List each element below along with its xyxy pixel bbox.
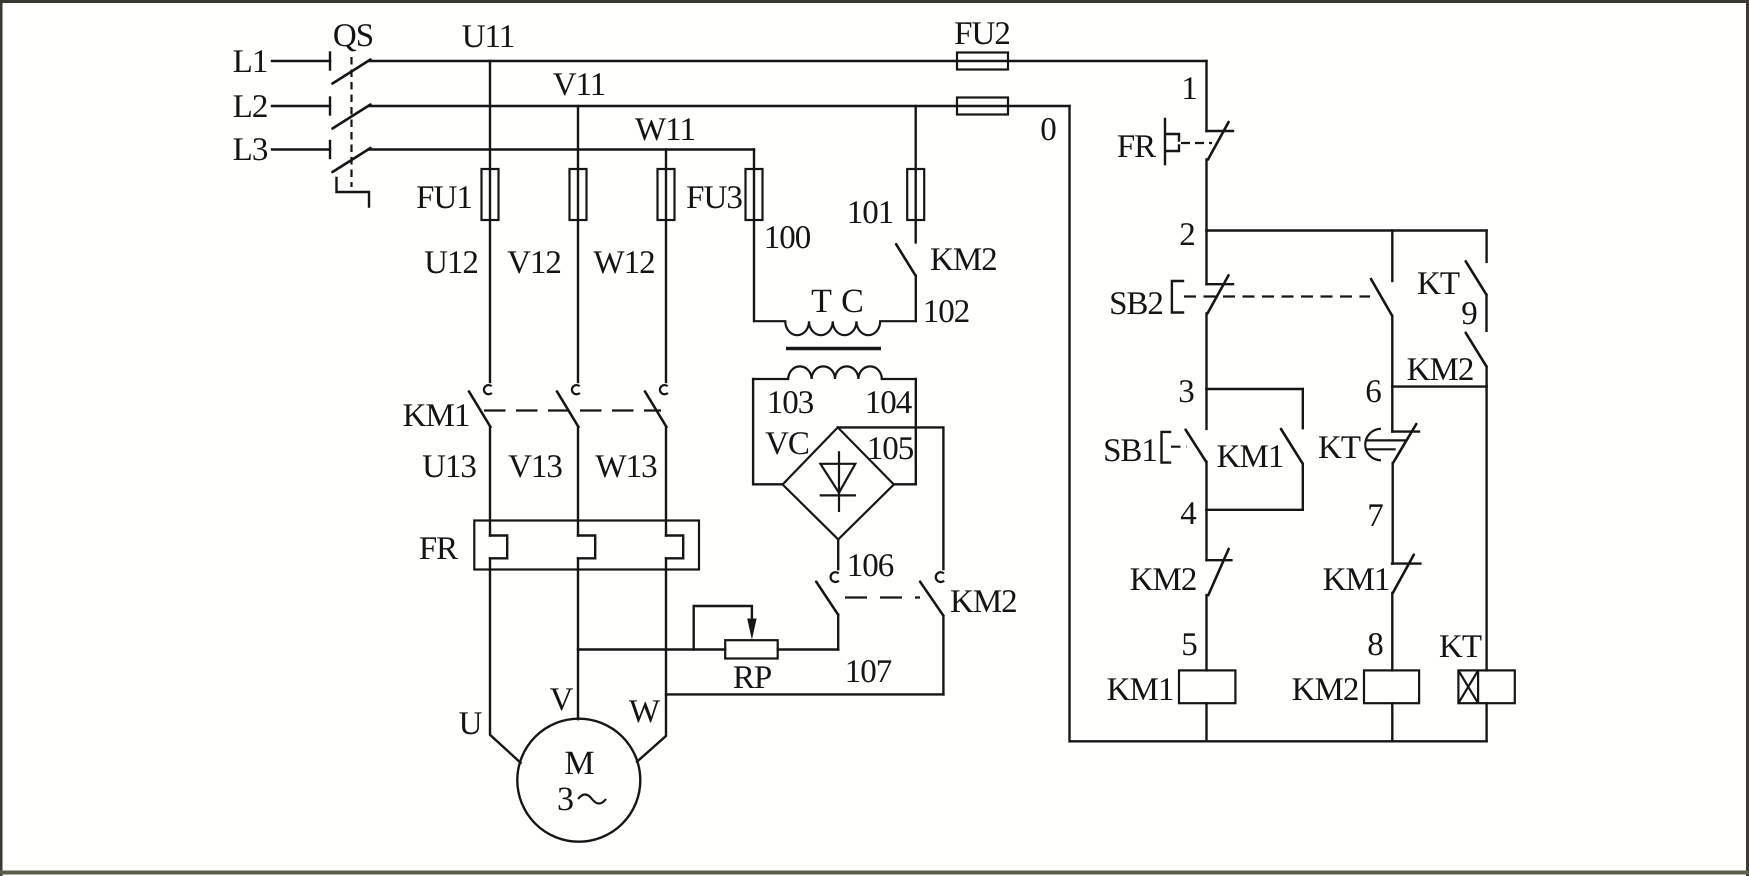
- wire V-phase: V11 bus down through FU1 to KM1 contact: [577, 106, 579, 382]
- wire TC secondary left lead down to VC: [753, 379, 783, 484]
- wire L3 lead: [272, 148, 330, 150]
- wire W-phase: W11 bus down through FU1 to KM1 contact: [665, 150, 667, 383]
- switch QS pole L1: fixed contact: [329, 53, 331, 70]
- svg-text:W13: W13: [595, 449, 657, 485]
- fuse FU2 (line 1): [957, 53, 1008, 70]
- stop button SB2: button cap: [1172, 281, 1183, 313]
- contactor KM2 interlock: blade (NC): [1208, 549, 1228, 595]
- wire KM1 latch contact to node 4: [1302, 464, 1304, 510]
- wire node 4 run: [1207, 509, 1303, 511]
- thermal relay FR heater element (x=490): [490, 536, 507, 559]
- switch QS pole L3: fixed contact: [329, 141, 331, 158]
- contactor KM1 latch contact: blade (NO): [1281, 429, 1303, 464]
- svg-text:0: 0: [1040, 112, 1056, 148]
- svg-text:5: 5: [1181, 627, 1197, 663]
- svg-text:KM2: KM2: [1130, 562, 1197, 598]
- svg-text:U: U: [459, 706, 483, 742]
- thermal relay FR contact: blade (NC): [1208, 122, 1229, 160]
- stop button SB2 mechanical link (dashed): [1184, 295, 1370, 297]
- svg-text:101: 101: [847, 195, 894, 231]
- svg-text:KM1: KM1: [1217, 439, 1284, 475]
- svg-text:2: 2: [1179, 217, 1195, 253]
- fuse FU2 (branch 101): [907, 169, 924, 220]
- wire node2 corner down to KT contact: [1485, 231, 1487, 262]
- fuse FU1 (W phase): [658, 169, 675, 220]
- time relay KT coil X mark: [1458, 670, 1478, 703]
- wire KM2 right contact down to rail 107: [942, 616, 944, 695]
- svg-text:U12: U12: [424, 245, 478, 281]
- wire TC secondary right lead down to VC: [894, 379, 916, 484]
- wire VC plus output (node 105) to KM2 contact: [838, 427, 944, 569]
- wire line W11 (lower bus): [369, 148, 754, 150]
- contactor KM2 braking contacts mechanical link (dashed): [845, 596, 920, 598]
- wire node3 branch down to KM1 latch contact: [1302, 389, 1304, 428]
- wire KM1 interlock to KM2 coil: [1391, 593, 1393, 670]
- contactor KM2 braking contact (left): blade: [816, 582, 838, 615]
- wire SB1 to node 4: [1205, 462, 1207, 510]
- svg-text:KM2: KM2: [1292, 672, 1359, 708]
- start button SB1: blade (NO): [1186, 430, 1206, 462]
- svg-text:T: T: [811, 283, 832, 320]
- wire U: FR to motor: [490, 558, 521, 763]
- svg-text:L1: L1: [233, 44, 268, 80]
- wire 0 rail: corner down and bottom run: [1070, 106, 1487, 741]
- svg-text:FU2: FU2: [954, 16, 1010, 52]
- wire node3 to SB1 contact: [1205, 389, 1207, 429]
- contactor KM2 braking contact (left): fixed hook: [831, 572, 839, 582]
- svg-text:KT: KT: [1318, 430, 1361, 466]
- switch QS pole L3: blade: [333, 148, 371, 172]
- wire W11 bus corner down to FU3: [753, 150, 755, 322]
- rectifier VC diode: anode line: [838, 451, 840, 512]
- wire L1 lead: [272, 60, 330, 62]
- wire node6 to KT delayed contact: [1391, 387, 1393, 432]
- svg-text:U11: U11: [462, 19, 515, 55]
- time relay KT instantaneous contact: blade (NO): [1466, 261, 1487, 295]
- fuse FU1 (U phase): [482, 169, 499, 220]
- switch QS pole L1: blade: [333, 60, 371, 84]
- svg-text:8: 8: [1367, 627, 1383, 663]
- svg-text:107: 107: [845, 654, 892, 690]
- switch QS handle bracket: [337, 178, 370, 207]
- stop button SB2: blade (NO, braking branch): [1371, 279, 1392, 316]
- border frame: [0, 0, 1749, 3]
- contactor KM1 coil: [1179, 670, 1235, 703]
- svg-text:W12: W12: [593, 245, 654, 281]
- wire node4 to KM2 interlock contact: [1205, 510, 1207, 560]
- svg-text:105: 105: [867, 431, 914, 467]
- contactor KM1 main contact (x=490): fixed hook: [484, 385, 492, 394]
- svg-text:9: 9: [1461, 296, 1477, 332]
- wire L2 lead: [272, 105, 330, 107]
- wire line U11 (top bus): [369, 60, 1207, 62]
- svg-text:4: 4: [1180, 496, 1196, 532]
- svg-text:106: 106: [847, 548, 894, 584]
- potentiometer RP wiper arm: [694, 606, 752, 650]
- svg-text:7: 7: [1367, 498, 1383, 534]
- contactor KM2 latch contact: blade (NO): [1466, 333, 1487, 367]
- contactor KM1 main contact (x=578): blade: [557, 392, 579, 428]
- contactor KM2 contact (TC primary): blade: [896, 244, 916, 276]
- wire W13: KM1 to FR: [665, 427, 667, 536]
- wire node 3 run (KM1 latch branch top): [1207, 388, 1303, 390]
- wire node6 down to KT coil: [1485, 387, 1487, 671]
- contactor KM1 main contact (x=666): fixed hook: [660, 385, 668, 394]
- motor M 3~ circle: [517, 719, 640, 842]
- wire V11 bus down through fuse 101: [915, 106, 917, 242]
- svg-text:3: 3: [557, 781, 573, 818]
- wire node2 to SB2 contact: [1205, 231, 1207, 285]
- svg-text:W11: W11: [635, 112, 695, 148]
- svg-text:SB2: SB2: [1109, 286, 1163, 322]
- start button SB1: button cap: [1162, 432, 1171, 463]
- svg-text:6: 6: [1365, 374, 1381, 410]
- switch QS mechanical link (dashed): [350, 57, 352, 187]
- wire KT delayed contact to node 7: [1391, 463, 1393, 564]
- svg-text:1: 1: [1181, 71, 1197, 107]
- wire FR contact to node 2: [1205, 160, 1207, 231]
- start button SB1 link (dashed): [1171, 446, 1187, 448]
- contactor KM1 interlock: fixed terminal bar: [1392, 562, 1420, 564]
- contactor KM1 main contact (x=578): fixed hook: [572, 385, 580, 394]
- fuse FU1 (V phase): [570, 169, 587, 220]
- svg-text:RP: RP: [733, 660, 772, 696]
- contactor KM1 interlock: blade (NC): [1393, 555, 1414, 593]
- wire KM2 left contact down to RP: [837, 615, 839, 650]
- wire SB2 to node 3: [1205, 313, 1207, 389]
- svg-text:SB1: SB1: [1103, 433, 1157, 469]
- rectifier VC diode: cathode bar: [820, 494, 856, 496]
- wire RP to KM2 left contact (node 107 run): [778, 648, 839, 650]
- wire V13: KM1 to FR: [577, 427, 579, 536]
- contactor KM2 interlock: fixed terminal bar: [1207, 559, 1232, 561]
- svg-text:KM2: KM2: [930, 242, 997, 278]
- svg-text:KM2: KM2: [1407, 352, 1474, 388]
- stop button SB2: blade (NC): [1208, 275, 1229, 313]
- wire SB2 NO contact to node 6: [1391, 316, 1393, 387]
- svg-text:L2: L2: [233, 89, 268, 125]
- svg-text:M: M: [564, 745, 594, 782]
- svg-text:KM1: KM1: [1107, 672, 1174, 708]
- wire node 9: [1485, 295, 1487, 331]
- svg-text:FR: FR: [1117, 129, 1156, 165]
- wire 1: top bus corner down to FR contact: [1205, 61, 1207, 131]
- thermal relay FR heater element (x=578): [578, 536, 595, 559]
- thermal relay FR contact: fixed terminal bar: [1207, 130, 1234, 132]
- wire KM2 latch to node 6: [1485, 367, 1487, 387]
- transformer TC primary winding: [753, 321, 916, 335]
- contactor KM2 braking contact (right): blade: [920, 582, 943, 616]
- svg-text:W: W: [629, 694, 661, 730]
- svg-text:100: 100: [764, 220, 811, 256]
- svg-text:V12: V12: [507, 245, 561, 281]
- rectifier VC diode: triangle: [820, 464, 855, 493]
- contactor KM1 main contacts mechanical link (dashed): [484, 409, 661, 411]
- wire U13: KM1 to FR: [489, 427, 491, 536]
- svg-text:QS: QS: [333, 18, 373, 54]
- thermal relay FR contact: link (dashed): [1181, 142, 1212, 144]
- time relay KT delayed contact: chord lines: [1366, 439, 1407, 441]
- svg-text:V: V: [550, 682, 574, 718]
- time relay KT delayed contact: delay semicircle: [1365, 429, 1381, 461]
- svg-text:102: 102: [923, 294, 970, 330]
- svg-text:KM2: KM2: [950, 584, 1017, 620]
- wire KM2 contact to TC primary right: [915, 276, 917, 321]
- stop button SB2: fixed terminal bar: [1207, 283, 1234, 285]
- time relay KT delayed contact: fixed terminal bar: [1392, 430, 1419, 432]
- wire VC minus output (node 106): [837, 539, 839, 569]
- svg-text:KM1: KM1: [403, 398, 470, 434]
- time relay KT coil (box with X cell): [1458, 670, 1514, 703]
- wire node 2 run: [1207, 229, 1487, 231]
- wire braking rail 107 to W phase: [666, 693, 943, 695]
- contactor KM1 main contact (x=490): blade: [469, 392, 491, 428]
- wire KM2 coil to 0 rail: [1391, 703, 1393, 741]
- wire line V11 (middle bus): [369, 105, 1070, 107]
- svg-text:KT: KT: [1417, 266, 1460, 302]
- thermal relay FR contact: actuator symbol: [1165, 119, 1179, 164]
- wire W: FR to motor: [637, 558, 666, 761]
- svg-text:FU1: FU1: [416, 180, 472, 216]
- wire node2 junction down to SB2 NO contact: [1391, 231, 1393, 282]
- wire KM2 interlock to KM1 coil: [1205, 595, 1207, 670]
- potentiometer RP body: [725, 640, 778, 658]
- fuse FU3: [746, 169, 763, 220]
- svg-text:103: 103: [767, 385, 814, 421]
- wire node 6 run: [1392, 385, 1486, 387]
- svg-text:V13: V13: [508, 449, 562, 485]
- potentiometer RP wiper arrowhead: [747, 619, 756, 640]
- svg-text:FU3: FU3: [686, 180, 742, 216]
- transformer TC core: [786, 347, 881, 351]
- svg-text:3: 3: [1178, 374, 1194, 410]
- switch QS pole L2: fixed contact: [329, 98, 331, 115]
- svg-text:U13: U13: [422, 449, 476, 485]
- svg-text:KM1: KM1: [1323, 562, 1390, 598]
- wire KT coil to 0 rail: [1485, 703, 1487, 741]
- wire KM1 coil to 0 rail: [1205, 703, 1207, 741]
- svg-text:104: 104: [865, 385, 912, 421]
- svg-text:FR: FR: [419, 531, 458, 567]
- transformer TC secondary winding: [753, 366, 916, 379]
- contactor KM2 braking contact (right): fixed hook: [936, 572, 944, 582]
- contactor KM1 main contact (x=666): blade: [645, 392, 667, 428]
- thermal relay FR heater element (x=666): [666, 536, 683, 559]
- time relay KT delayed contact: blade: [1393, 424, 1416, 463]
- svg-text:L3: L3: [233, 132, 268, 168]
- thermal relay FR box: [474, 521, 699, 570]
- svg-text:KT: KT: [1439, 629, 1482, 665]
- svg-text:VC: VC: [765, 426, 809, 462]
- contactor KM2 coil: [1364, 670, 1419, 703]
- wire V: FR to motor: [577, 558, 579, 719]
- wire U-phase: U11 bus down through FU1 to KM1 contact: [489, 61, 491, 382]
- rectifier VC diamond: [783, 427, 894, 539]
- wire RP to V phase: [578, 648, 725, 650]
- switch QS pole L2: blade: [333, 105, 371, 129]
- fuse FU2 (line 0): [957, 98, 1008, 115]
- svg-text:C: C: [841, 283, 863, 320]
- svg-text:V11: V11: [553, 67, 606, 103]
